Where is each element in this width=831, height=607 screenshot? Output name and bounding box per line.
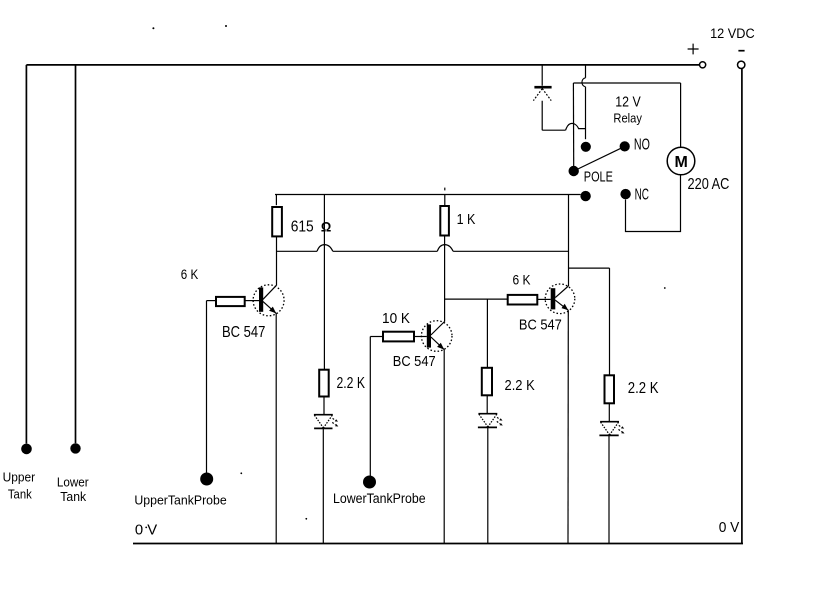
- label 6 K (R3): [181, 267, 199, 283]
- node Lower Tank electrode: [70, 443, 80, 453]
- svg-text:BC 547: BC 547: [393, 353, 436, 370]
- svg-text:LowerTankProbe: LowerTankProbe: [333, 491, 426, 506]
- svg-text:BC 547: BC 547: [222, 324, 265, 341]
- diode D1 cathode bar: [534, 86, 551, 89]
- wire R6 to LED2: [486, 395, 488, 413]
- transistor Q2 emitter lead with arrow: [431, 337, 444, 350]
- label 2.2 K (R8): [628, 380, 659, 397]
- wire LED1 branch from collector rail: [323, 195, 325, 370]
- label 0 V left: [135, 522, 158, 539]
- wire R5 right lead to Q2 base: [414, 336, 427, 338]
- svg-text:0 V: 0 V: [719, 519, 740, 536]
- resistor R4 2.2K body: [319, 370, 329, 397]
- wire R7 right lead to Q3 base: [537, 298, 550, 300]
- node NC contact: [620, 189, 630, 199]
- diode D1 arrow: [533, 89, 551, 101]
- wire NC to motor bottom: [626, 175, 681, 232]
- svg-text:2.2 K: 2.2 K: [628, 380, 659, 397]
- label ohm symbol: [321, 218, 331, 234]
- wire LED2 to 0V: [487, 427, 489, 543]
- resistor R6 2.2K body: [482, 368, 492, 396]
- transistor Q1 collector lead: [263, 285, 276, 299]
- resistor R8 2.2K body: [605, 375, 615, 403]
- node NO contact: [620, 141, 630, 151]
- label 10 K (R5): [382, 311, 410, 327]
- wire Q1 emitter to 0V: [275, 313, 277, 543]
- svg-text:NC: NC: [635, 187, 649, 204]
- transistor Q3 BC547 circle: [545, 284, 575, 314]
- wire lower probe riser: [369, 337, 371, 477]
- label 1 K: [457, 211, 476, 228]
- resistor R7 6K body: [508, 295, 538, 305]
- LED D2: [314, 415, 338, 429]
- wire LED1 to 0V: [322, 428, 324, 543]
- svg-text:Relay: Relay: [613, 111, 642, 126]
- wire motor top lead: [680, 83, 682, 147]
- diode D1 cathode lead: [541, 65, 543, 86]
- wire Q3 emitter to 0V: [567, 310, 569, 543]
- wire Q2 emitter to 0V: [443, 350, 445, 543]
- transistor Q2 BC547 circle: [421, 321, 452, 352]
- transistor Q2 collector lead: [431, 322, 445, 336]
- resistor R2 1K top tick: [444, 188, 446, 191]
- svg-text:Tank: Tank: [60, 489, 86, 504]
- transistor Q1 base lead: [245, 300, 259, 302]
- wire Q2 collector to Q3 base network: [445, 298, 508, 300]
- svg-text:6 K: 6 K: [513, 273, 531, 288]
- node POLE contact: [569, 166, 579, 176]
- transistor Q3 collector lead: [555, 286, 568, 298]
- resistor R1 615 ohm top stub: [275, 195, 277, 206]
- relay coil wire (from +12V rail, hops over contact feed line): [582, 65, 586, 139]
- wire lower tank vertical: [75, 65, 77, 443]
- label 2.2 K (R4): [337, 375, 366, 392]
- LED D3: [478, 414, 503, 428]
- svg-text:1 K: 1 K: [457, 211, 476, 228]
- relay switch blade POLE to NO: [574, 146, 625, 171]
- wire 0V right vertical from - terminal: [741, 69, 743, 543]
- wire pole feed from relay top wire down to POLE: [572, 83, 574, 166]
- wire collector supply rail from 615 to relay contact: [275, 194, 581, 196]
- label UpperTankProbe: [134, 492, 226, 507]
- svg-text:2.2 K: 2.2 K: [337, 375, 366, 392]
- transistor Q3 emitter lead with arrow: [555, 300, 568, 310]
- resistor R2 1K body: [440, 206, 449, 236]
- LED D4: [599, 422, 624, 436]
- relay coil contact node: [581, 142, 591, 152]
- label 0 V right: [719, 519, 740, 536]
- node UpperTankProbe: [200, 473, 213, 486]
- wire LED2 branch riser: [486, 299, 488, 368]
- label 220 AC: [688, 176, 730, 193]
- label 12 V (relay): [615, 95, 641, 111]
- svg-text:6 K: 6 K: [181, 267, 199, 283]
- label 615: [291, 218, 314, 235]
- node collector-rail contact (below coil node): [580, 191, 590, 201]
- label NO: [634, 136, 650, 153]
- wire R2 bottom to Q2 collector: [444, 236, 446, 322]
- terminal + (12VDC positive): [688, 44, 706, 68]
- label NC: [635, 187, 649, 204]
- svg-text:M: M: [675, 154, 688, 171]
- wire R4 to LED1: [323, 397, 325, 415]
- wire upper probe riser: [206, 301, 208, 473]
- wire +12V top rail: [26, 64, 700, 66]
- wire collector link rail with hops (Q1 to Q3): [277, 245, 569, 252]
- transistor Q1 base bar: [259, 287, 263, 311]
- wire relay top horizontal to motor branch: [573, 82, 680, 84]
- resistor R5 10K body: [383, 332, 414, 342]
- label POLE: [584, 169, 613, 186]
- node LowerTankProbe: [363, 476, 376, 489]
- svg-text:0 V: 0 V: [135, 522, 158, 539]
- label Lower Tank: [57, 475, 89, 504]
- label BC 547 (Q2): [393, 353, 436, 370]
- svg-text:12 VDC: 12 VDC: [710, 26, 755, 42]
- svg-text:NO: NO: [634, 136, 650, 153]
- stray ink specks: [152, 25, 665, 520]
- label 12 VDC: [710, 26, 755, 42]
- wire LED3 to 0V: [608, 435, 610, 543]
- svg-text:Tank: Tank: [8, 487, 32, 502]
- label Upper Tank: [3, 469, 36, 501]
- wire R5 left lead: [370, 336, 383, 338]
- transistor Q1 BC547 circle: [253, 285, 284, 316]
- svg-text:Lower: Lower: [57, 475, 89, 490]
- diode D1 anode lead down and right with hop over pole wire: [542, 101, 585, 130]
- wire R3 left lead: [207, 300, 217, 302]
- label 2.2 K (R6): [505, 378, 535, 394]
- svg-text:BC 547: BC 547: [519, 317, 562, 334]
- svg-text:UpperTankProbe: UpperTankProbe: [134, 492, 226, 507]
- svg-text:2.2 K: 2.2 K: [505, 378, 535, 394]
- wire LED3 branch riser: [609, 268, 611, 375]
- terminal - (12VDC negative): [738, 51, 745, 69]
- label Relay: [613, 111, 642, 126]
- resistor R1 615 ohm body: [272, 207, 282, 236]
- svg-text:12 V: 12 V: [615, 95, 641, 111]
- wire LED3 branch horizontal: [568, 267, 609, 269]
- label LowerTankProbe: [333, 491, 426, 506]
- node Upper Tank electrode: [21, 444, 32, 455]
- transistor Q3 base bar: [551, 288, 556, 309]
- wire 0V bottom rail: [133, 543, 743, 545]
- transistor Q1 emitter lead with arrow: [263, 301, 276, 313]
- label BC 547 (Q3): [519, 317, 562, 334]
- resistor R2 1K top stub: [444, 195, 446, 207]
- svg-text:220 AC: 220 AC: [688, 176, 730, 193]
- wire upper tank vertical: [25, 65, 27, 444]
- transistor Q2 base bar: [427, 324, 431, 347]
- svg-text:10 K: 10 K: [382, 311, 410, 327]
- wire R1 bottom to Q1 collector: [276, 236, 278, 285]
- motor M1 circle: [667, 147, 695, 175]
- svg-text:Upper: Upper: [3, 469, 36, 484]
- label 6 K (R7): [513, 273, 531, 288]
- svg-text:615: 615: [291, 218, 314, 235]
- svg-text:POLE: POLE: [584, 169, 613, 186]
- svg-text:Ω: Ω: [321, 218, 331, 234]
- wire R8 to LED3: [608, 403, 610, 421]
- label BC 547 (Q1): [222, 324, 265, 341]
- resistor R3 6K body: [216, 297, 245, 306]
- wire Q3 collector riser to collector supply rail: [568, 195, 570, 287]
